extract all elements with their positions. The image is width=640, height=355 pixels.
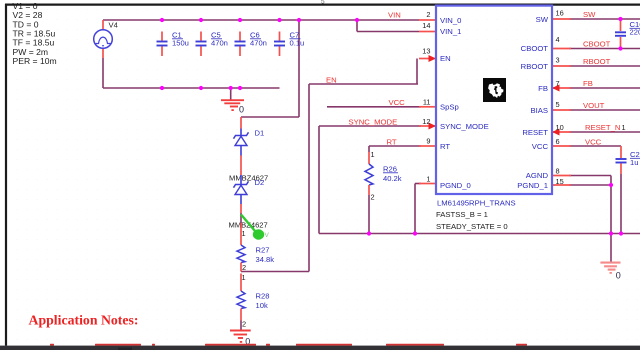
capacitor C1 [157,32,168,57]
svg-text:RESET_N: RESET_N [585,123,620,132]
svg-text:10: 10 [556,123,564,132]
ground 0 right [600,234,620,274]
wire RBOOT net [569,65,640,67]
svg-text:220n: 220n [630,28,640,37]
svg-text:SpSp: SpSp [440,103,459,112]
wire FB net [569,87,640,89]
svg-text:Application Notes:: Application Notes: [29,312,139,327]
voltage source V4 [94,20,113,58]
label R27 34.8k [256,246,275,264]
label C16 220n [630,20,640,37]
svg-text:FASTSS_B = 1: FASTSS_B = 1 [436,210,488,219]
svg-text:12: 12 [422,117,430,126]
label C20 1u [630,150,640,167]
wire VIN_1 jog [357,20,419,32]
svg-text:1u: 1u [630,158,638,167]
svg-text:5: 5 [556,100,560,109]
V4 source parameter text block [13,1,57,66]
svg-text:D2: D2 [255,178,265,187]
svg-text:D1: D1 [255,129,265,138]
svg-text:PER = 10m: PER = 10m [13,56,57,66]
label R26 40.2k [383,165,402,183]
svg-text:SYNC_MODE: SYNC_MODE [440,122,489,131]
wire VCC left stub [327,106,421,108]
svg-text:13: 13 [422,47,430,56]
svg-text:CBOOT: CBOOT [583,40,611,49]
svg-text:2: 2 [371,193,375,202]
svg-text:AGND: AGND [526,171,549,180]
wire ground rail [319,233,640,235]
wire RESET_N net [569,131,640,133]
svg-text:SW: SW [583,10,596,19]
svg-text:470n: 470n [250,39,267,48]
svg-text:10k: 10k [256,301,268,310]
svg-text:9: 9 [426,137,430,146]
svg-text:VIN_0: VIN_0 [440,16,461,25]
svg-text:150u: 150u [172,39,189,48]
svg-text:1: 1 [622,123,626,132]
svg-text:SYNC_MODE: SYNC_MODE [349,117,398,126]
svg-text:RESET: RESET [522,128,548,137]
svg-text:40.2k: 40.2k [383,174,402,183]
capacitor C16 (CBOOT) [615,19,626,49]
diode D2 MMBZ4627 [234,175,249,213]
svg-text:VIN: VIN [388,10,401,19]
label R28 10k [256,292,270,310]
svg-text:1: 1 [371,150,375,159]
svg-text:6: 6 [556,137,560,146]
wire VCC right to C20 [569,145,621,147]
svg-text:4: 4 [556,35,560,44]
IC right pin stubs [553,19,571,185]
wire R26 to ground rail [368,195,370,234]
ground 0 below R28 [230,321,251,343]
svg-text:STEADY_STATE = 0: STEADY_STATE = 0 [436,222,508,231]
green voltage probe marker [241,215,270,240]
svg-text:1: 1 [242,229,246,238]
wire D2 to R27 [240,213,242,223]
svg-text:2: 2 [426,10,430,19]
cut-off note text at bottom [50,344,527,346]
capacitor C7 [274,32,285,57]
svg-text:RT: RT [440,142,450,151]
svg-text:BIAS: BIAS [530,106,548,115]
svg-text:PGND_1: PGND_1 [517,181,548,190]
svg-text:15: 15 [556,177,564,186]
svg-text:SW: SW [536,15,549,24]
svg-text:0.1u: 0.1u [290,39,305,48]
IC pin numbers left [422,10,430,184]
svg-text:34.8k: 34.8k [256,255,275,264]
pin arrow EN [429,55,437,62]
svg-text:RBOOT: RBOOT [583,57,611,66]
wire VIN top rail [103,19,419,21]
wire VOUT net [569,109,640,111]
svg-text:14: 14 [422,21,430,30]
wire PGND_1 to ground rail [569,185,611,234]
resistor R27 [237,223,245,272]
svg-text:0: 0 [239,105,244,115]
svg-text:LM61495RPH_TRANS: LM61495RPH_TRANS [437,198,516,207]
bottom task bar [0,346,640,350]
svg-text:11: 11 [423,98,431,107]
wire VIN drop to D1 [241,20,299,117]
resistor R28 [237,274,245,321]
svg-text:8: 8 [556,166,560,175]
capacitor C5 [196,32,207,57]
capacitor C6 [235,32,246,57]
wire EN net [241,59,418,272]
svg-text:R28: R28 [256,292,270,301]
pin arrow SYNC_MODE [429,123,437,130]
window border top [5,3,640,5]
svg-text:470n: 470n [211,39,228,48]
svg-text:1: 1 [426,175,430,184]
op-amp-style IC U1 LM61495RPH_TRANS body [436,6,552,194]
TI logo [483,78,506,102]
svg-text:PGND_0: PGND_0 [440,181,471,190]
svg-text:FB: FB [538,84,548,93]
pin arrow FB [552,85,560,92]
svg-text:R27: R27 [256,246,270,255]
IC left pin stubs [419,20,435,184]
svg-text:3: 3 [556,56,560,65]
window border left [5,4,7,346]
label C5 470n [211,31,228,48]
svg-text:EN: EN [326,75,337,84]
svg-text:RBOOT: RBOOT [521,62,549,71]
svg-text:0: 0 [616,271,621,281]
wire SYNC_MODE net [319,126,421,234]
svg-text:VOUT: VOUT [583,101,605,110]
svg-text:2: 2 [242,263,246,272]
resistor R26 [365,146,373,195]
label C1 150u [172,31,189,48]
wire CBOOT net [569,48,640,50]
wire SW net [569,18,640,20]
wire AGND to PGND_1 [569,176,611,186]
label C6 470n [250,31,267,48]
svg-text:VIN_1: VIN_1 [440,27,461,36]
ground 0 below input caps [221,88,244,111]
wire V4 to bottom rail [103,58,280,88]
svg-text:VCC: VCC [389,98,406,107]
svg-text:16: 16 [556,8,564,17]
svg-text:RT: RT [387,137,397,146]
label C7 0.1u [290,31,305,48]
pin arrow RESET [552,129,560,136]
IC pin numbers right [556,8,564,186]
capacitor C20 (VCC bypass) [616,146,627,174]
svg-text:VCC: VCC [532,142,549,151]
svg-text:VCC: VCC [585,137,602,146]
svg-text:7: 7 [556,79,560,88]
svg-text:5: 5 [321,0,325,5]
svg-text:FB: FB [583,79,593,88]
wire C20 to ground rail [620,174,622,234]
svg-text:R26: R26 [383,165,397,174]
wire PGND_0 to ground rail [415,184,421,234]
IC pin names right [517,15,549,190]
svg-text:V4: V4 [109,21,118,30]
wire RT net [369,145,421,147]
svg-text:1: 1 [242,273,246,282]
svg-text:V: V [265,232,270,239]
IC pin names left [440,16,489,190]
svg-text:2: 2 [242,320,246,329]
svg-text:CBOOT: CBOOT [521,44,549,53]
diode D1 MMBZ4627 [234,117,249,175]
svg-text:EN: EN [440,54,451,63]
